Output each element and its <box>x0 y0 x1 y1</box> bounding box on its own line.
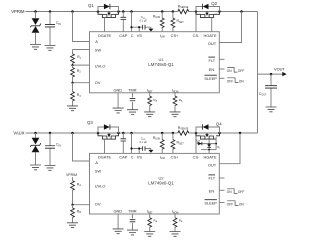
wire: OV stub <box>73 82 90 84</box>
wire: GND pin U1 to ground <box>117 93 119 109</box>
capacitor CTMR1 on TMR <box>132 93 134 110</box>
ground (TVS1) <box>30 45 41 50</box>
wire: VAUX main rail <box>26 132 258 134</box>
ground (signal, CVS1) filled triangle <box>148 29 153 32</box>
svg-text:HGATE: HGATE <box>203 154 217 159</box>
svg-text:UVLO: UVLO <box>95 63 106 68</box>
capacitor CVS1 0.1uF <box>143 25 145 30</box>
svg-text:CAP: CAP <box>119 33 127 38</box>
wire: C pin stub U1 <box>131 12 133 32</box>
resistor RILIM2 <box>161 133 163 153</box>
svg-text:VPRIM: VPRIM <box>11 9 25 14</box>
svg-text:RSENSE: RSENSE <box>178 5 189 10</box>
resistor RA (VPRIM divider upper) <box>72 177 74 181</box>
svg-text:VPRIM: VPRIM <box>66 173 77 177</box>
wire: OV stub U2 <box>73 204 90 206</box>
junction dots on bottom rail <box>34 132 37 135</box>
svg-text:RSENSE: RSENSE <box>178 126 189 131</box>
resistor RSET2 <box>172 133 174 153</box>
svg-text:CS+: CS+ <box>171 154 179 159</box>
svg-text:ON: ON <box>239 202 244 206</box>
wire: CS- stub U1 <box>195 12 197 32</box>
resistor R-IRET2 <box>149 214 151 218</box>
op-amp U2 IC body <box>90 153 220 214</box>
svg-text:CS-: CS- <box>193 154 200 159</box>
svg-text:VAUX: VAUX <box>13 131 24 136</box>
svg-text:CS-: CS- <box>193 33 200 38</box>
svg-text:Q2: Q2 <box>211 1 217 6</box>
wire: VS branch U1 <box>132 27 151 32</box>
capacitor CTMR2 on TMR <box>132 214 134 230</box>
resistor R1 <box>71 54 75 64</box>
wire: HGATE stem from Q2 gate <box>211 18 213 32</box>
svg-text:0.1 µF: 0.1 µF <box>140 140 148 144</box>
TVS diode D_tvs2 input clamp <box>35 133 37 138</box>
resistor RILIM1 <box>161 12 163 32</box>
svg-text:A: A <box>95 160 98 165</box>
svg-text:0.1 µF: 0.1 µF <box>140 19 148 23</box>
svg-text:EN: EN <box>209 67 215 72</box>
svg-text:CAP: CAP <box>119 154 127 159</box>
svg-text:OV: OV <box>95 80 101 85</box>
wire: DGATE stem from Q3 gate <box>104 139 106 153</box>
svg-text:OUT: OUT <box>208 41 217 46</box>
wire: C pin stub U2 <box>131 133 133 153</box>
body diode of Q2 <box>196 7 220 12</box>
resistor R-INOM1 <box>174 93 176 96</box>
node VOUT output <box>258 73 284 75</box>
wire: OUT stub U2 to rail <box>219 133 240 164</box>
ground (R3) <box>67 106 78 111</box>
resistor RB (VPRIM divider lower) <box>72 205 74 208</box>
svg-text:CS+: CS+ <box>171 33 179 38</box>
wire: UVLO stub <box>73 64 90 66</box>
wire: A pin stub U2 <box>73 133 90 161</box>
svg-text:SW: SW <box>95 47 102 52</box>
resistor RSENSE1 in rail <box>178 10 189 14</box>
zener DZ down on gate stem <box>208 143 210 145</box>
svg-text:SLEEP: SLEEP <box>204 200 217 205</box>
wire: CS- stub U2 <box>195 133 197 153</box>
svg-text:FLT: FLT <box>208 58 215 63</box>
resistor RSET1 <box>172 12 174 32</box>
svg-text:LM749x0-Q1: LM749x0-Q1 <box>148 181 174 186</box>
op-amp U1 IC body <box>90 32 220 93</box>
capacitor CIN2 <box>49 133 51 166</box>
svg-text:EN: EN <box>209 189 215 194</box>
wire: A pin stub U1 <box>73 12 90 42</box>
capacitor CVS2 0.1uF <box>143 146 145 151</box>
wire: bottom of clamp loop to HGATE stem <box>201 149 216 151</box>
svg-text:OFF: OFF <box>238 69 244 73</box>
switch EN2 ON/OFF <box>219 177 224 179</box>
svg-text:HGATE: HGATE <box>203 33 217 38</box>
svg-text:OUT: OUT <box>208 162 217 167</box>
body diode of Q1 <box>98 7 119 12</box>
svg-text:LM749x0-Q1: LM749x0-Q1 <box>148 62 174 67</box>
ground (signal, CVS2) filled triangle <box>148 150 153 153</box>
wire: GND pin U2 to ground <box>117 214 119 229</box>
svg-text:VS: VS <box>137 33 143 38</box>
svg-text:TMR: TMR <box>128 88 137 93</box>
svg-text:DGATE: DGATE <box>98 33 112 38</box>
transistor Q4 FET <box>196 133 220 139</box>
wire: rail corner down to VOUT node <box>257 12 259 134</box>
resistor R-INOM2 <box>174 214 176 218</box>
svg-text:C: C <box>131 33 134 38</box>
svg-text:TMR: TMR <box>128 209 137 214</box>
svg-text:UVLO: UVLO <box>95 184 106 189</box>
svg-text:GND: GND <box>113 88 122 93</box>
resistor RSENSE2 in rail <box>178 131 189 135</box>
switch SLEEP1 OFF/ON <box>219 77 224 79</box>
capacitor C-CAP pin U2 <box>122 133 124 153</box>
wire: source return vertical <box>215 137 217 150</box>
transistor Q3 FET <box>98 133 119 139</box>
svg-text:ON: ON <box>227 69 232 73</box>
svg-text:OFF: OFF <box>227 202 233 206</box>
svg-text:RB: RB <box>77 210 82 215</box>
TVS diode D_tvs1 input clamp <box>35 12 37 19</box>
switch SLEEP2 OFF/ON <box>219 202 224 204</box>
capacitor CIN1 <box>49 12 51 46</box>
switch EN1 ON/OFF <box>219 58 224 60</box>
svg-text:Q3: Q3 <box>87 120 93 125</box>
wire: DGATE stem from Q1 gate <box>104 18 106 32</box>
resistor R-IRET1 <box>149 93 151 96</box>
svg-text:ON: ON <box>227 190 232 194</box>
svg-text:SLEEP: SLEEP <box>204 76 217 81</box>
wire: VPRIM main rail <box>26 11 258 13</box>
wire: OUT stub U1 to rail <box>219 12 241 43</box>
svg-text:DGATE: DGATE <box>98 154 112 159</box>
body diode of Q4 <box>196 127 220 133</box>
transistor Q2 back-to-back FET B <box>196 12 220 18</box>
svg-text:VOUT: VOUT <box>274 67 285 72</box>
wire: SW stub <box>73 50 90 54</box>
ground (CIN1) <box>45 46 56 51</box>
svg-text:SW: SW <box>95 169 102 174</box>
svg-text:OV: OV <box>95 202 101 207</box>
diode DGS (right) in gate loop <box>197 141 216 143</box>
svg-text:A: A <box>95 39 98 44</box>
svg-text:OFF: OFF <box>227 80 233 84</box>
resistor R3 <box>72 83 74 92</box>
junction dots on top rail <box>34 10 37 13</box>
transistor Q1 back-to-back FET A <box>98 12 119 18</box>
wire: VS branch U2 <box>132 149 151 154</box>
svg-text:R2: R2 <box>77 69 82 74</box>
svg-text:C: C <box>131 154 134 159</box>
svg-text:VS: VS <box>137 154 143 159</box>
svg-text:ON: ON <box>239 80 244 84</box>
svg-text:GND: GND <box>113 209 122 214</box>
body diode of Q3 <box>98 127 119 133</box>
svg-text:Q1: Q1 <box>88 3 94 8</box>
svg-text:Q4: Q4 <box>216 121 222 126</box>
svg-text:FLT: FLT <box>208 176 215 181</box>
svg-text:OFF: OFF <box>238 190 244 194</box>
resistor R2 <box>72 65 74 67</box>
capacitor C-CAP pin U1 <box>122 12 124 32</box>
capacitor COUT <box>270 74 272 107</box>
